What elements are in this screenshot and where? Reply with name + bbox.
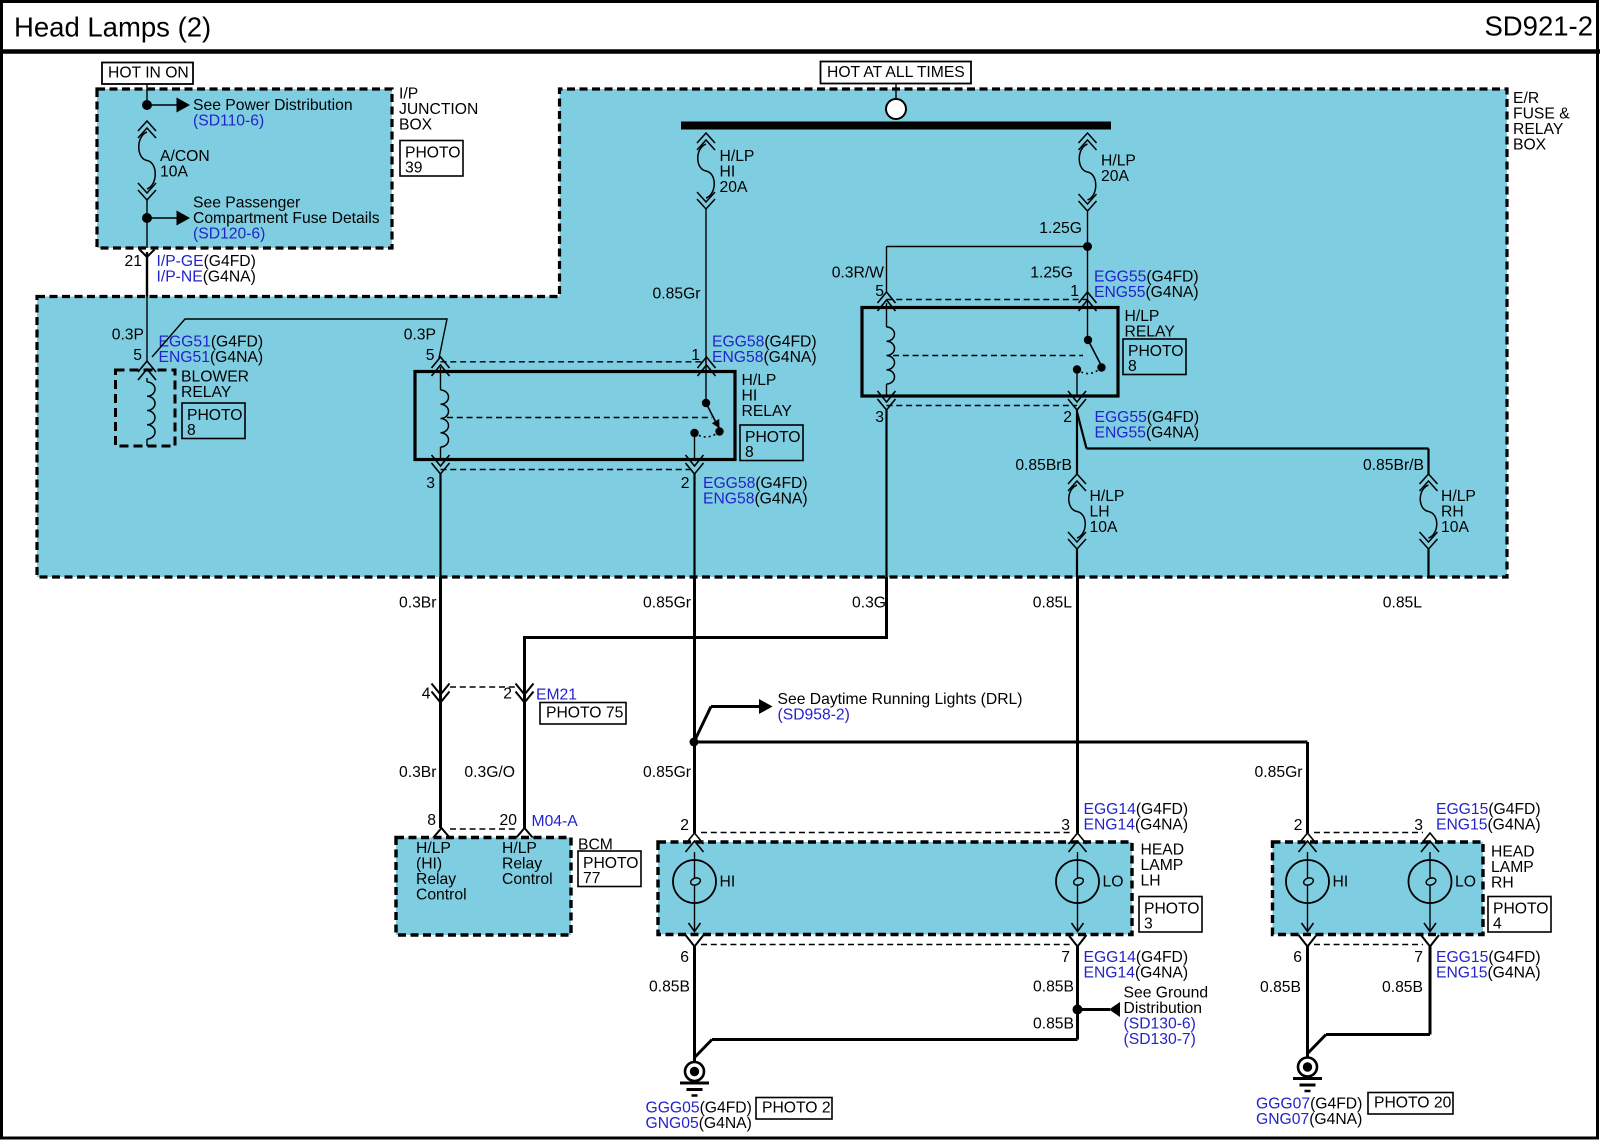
svg-text:LH: LH (1090, 504, 1110, 521)
svg-text:10A: 10A (160, 164, 188, 181)
svg-text:I/P-GE(G4FD): I/P-GE(G4FD) (157, 253, 256, 270)
svg-text:HEAD: HEAD (1491, 844, 1535, 861)
svg-text:ENG15(G4NA): ENG15(G4NA) (1436, 965, 1541, 982)
svg-text:7: 7 (1414, 949, 1423, 966)
svg-text:1.25G: 1.25G (1039, 220, 1082, 237)
svg-text:(SD958-2): (SD958-2) (778, 707, 850, 724)
svg-text:See Daytime Running Lights (DR: See Daytime Running Lights (DRL) (778, 691, 1023, 708)
svg-text:ENG58(G4NA): ENG58(G4NA) (712, 349, 817, 366)
svg-text:2: 2 (681, 475, 690, 492)
svg-text:0.85BrB: 0.85BrB (1015, 457, 1072, 474)
svg-text:EGG51(G4FD): EGG51(G4FD) (159, 334, 264, 351)
svg-text:0.85B: 0.85B (1382, 979, 1423, 996)
svg-text:EGG55(G4FD): EGG55(G4FD) (1094, 269, 1199, 286)
svg-text:1.25G: 1.25G (1030, 265, 1073, 282)
svg-text:0.3Br: 0.3Br (399, 764, 437, 781)
svg-text:ENG14(G4NA): ENG14(G4NA) (1084, 817, 1189, 834)
svg-text:LAMP: LAMP (1141, 857, 1184, 874)
svg-text:0.3G: 0.3G (852, 595, 886, 612)
svg-text:H/LP: H/LP (1125, 308, 1160, 325)
svg-text:8: 8 (1128, 358, 1137, 375)
svg-text:10A: 10A (1090, 519, 1118, 536)
svg-text:(SD110-6): (SD110-6) (193, 113, 264, 130)
svg-text:GGG05(G4FD): GGG05(G4FD) (646, 1100, 752, 1117)
svg-text:RH: RH (1441, 504, 1464, 521)
svg-text:39: 39 (405, 160, 422, 177)
svg-text:Control: Control (502, 871, 553, 888)
svg-text:GNG05(G4NA): GNG05(G4NA) (646, 1115, 752, 1132)
svg-text:M04-A: M04-A (532, 813, 579, 830)
svg-text:0.3R/W: 0.3R/W (832, 265, 884, 282)
svg-text:2: 2 (1294, 817, 1303, 834)
svg-text:EGG14(G4FD): EGG14(G4FD) (1084, 801, 1189, 818)
svg-text:8: 8 (187, 422, 196, 439)
svg-text:HOT IN ON: HOT IN ON (108, 65, 189, 82)
svg-text:21: 21 (125, 253, 142, 270)
svg-text:LH: LH (1141, 873, 1161, 890)
svg-text:H/LP: H/LP (1441, 488, 1476, 505)
svg-text:3: 3 (426, 475, 435, 492)
svg-text:EGG58(G4FD): EGG58(G4FD) (703, 475, 808, 492)
svg-text:RELAY: RELAY (1125, 324, 1176, 341)
svg-text:Relay: Relay (416, 871, 456, 888)
svg-text:BLOWER: BLOWER (181, 369, 249, 386)
svg-text:LAMP: LAMP (1491, 859, 1534, 876)
svg-text:A/CON: A/CON (160, 148, 210, 165)
svg-text:HI: HI (1333, 874, 1349, 891)
svg-text:Control: Control (416, 887, 467, 904)
svg-text:20A: 20A (720, 179, 748, 196)
svg-text:H/LP: H/LP (1101, 153, 1136, 170)
svg-text:0.85L: 0.85L (1383, 595, 1423, 612)
svg-text:3: 3 (1061, 817, 1070, 834)
svg-text:FUSE &: FUSE & (1513, 106, 1570, 123)
svg-text:I/P-NE(G4NA): I/P-NE(G4NA) (157, 269, 256, 286)
svg-text:(SD130-7): (SD130-7) (1124, 1031, 1196, 1048)
svg-text:HI: HI (742, 388, 758, 405)
svg-text:3: 3 (1414, 817, 1423, 834)
svg-text:PHOTO 20: PHOTO 20 (1374, 1095, 1452, 1112)
svg-text:20A: 20A (1101, 168, 1129, 185)
svg-text:LO: LO (1455, 874, 1476, 891)
svg-text:0.85Gr: 0.85Gr (643, 595, 691, 612)
svg-text:Head Lamps (2): Head Lamps (2) (14, 12, 211, 43)
svg-text:77: 77 (583, 870, 600, 887)
svg-text:6: 6 (680, 949, 689, 966)
svg-text:SD921-2: SD921-2 (1484, 11, 1593, 42)
svg-text:(SD130-6): (SD130-6) (1124, 1016, 1196, 1033)
svg-text:0.85Gr: 0.85Gr (643, 764, 691, 781)
svg-text:0.85Br/B: 0.85Br/B (1363, 457, 1424, 474)
svg-text:5: 5 (426, 347, 435, 364)
svg-text:GNG07(G4NA): GNG07(G4NA) (1256, 1111, 1362, 1128)
svg-text:RELAY: RELAY (742, 403, 793, 420)
svg-text:0.3P: 0.3P (112, 327, 144, 344)
svg-text:2: 2 (503, 686, 512, 703)
svg-text:0.85B: 0.85B (649, 979, 690, 996)
svg-text:2: 2 (680, 817, 689, 834)
svg-text:HEAD: HEAD (1141, 842, 1185, 859)
svg-text:2: 2 (1063, 409, 1072, 426)
svg-text:10A: 10A (1441, 519, 1469, 536)
svg-text:1: 1 (1070, 283, 1079, 300)
svg-text:(SD120-6): (SD120-6) (193, 226, 265, 243)
svg-text:EGG58(G4FD): EGG58(G4FD) (712, 334, 817, 351)
svg-text:(HI): (HI) (416, 856, 442, 873)
svg-text:Distribution: Distribution (1124, 1000, 1202, 1017)
svg-text:E/R: E/R (1513, 90, 1539, 107)
svg-text:Compartment Fuse Details: Compartment Fuse Details (193, 210, 380, 227)
svg-text:0.3G/O: 0.3G/O (464, 764, 515, 781)
svg-text:EGG55(G4FD): EGG55(G4FD) (1095, 409, 1200, 426)
svg-text:See Power Distribution: See Power Distribution (193, 97, 353, 114)
svg-text:EGG15(G4FD): EGG15(G4FD) (1436, 801, 1541, 818)
svg-text:0.3Br: 0.3Br (399, 595, 437, 612)
svg-text:GGG07(G4FD): GGG07(G4FD) (1256, 1096, 1362, 1113)
svg-text:H/LP: H/LP (742, 372, 777, 389)
svg-text:I/P: I/P (399, 86, 418, 103)
svg-text:1: 1 (691, 347, 700, 364)
svg-text:EGG14(G4FD): EGG14(G4FD) (1084, 949, 1189, 966)
svg-text:0.85L: 0.85L (1033, 595, 1073, 612)
svg-text:HI: HI (720, 164, 736, 181)
svg-text:BOX: BOX (399, 117, 433, 134)
svg-text:LO: LO (1103, 874, 1124, 891)
svg-text:4: 4 (1493, 916, 1502, 933)
svg-text:0.85Gr: 0.85Gr (653, 286, 701, 303)
svg-text:7: 7 (1061, 949, 1070, 966)
svg-text:ENG58(G4NA): ENG58(G4NA) (703, 491, 808, 508)
svg-text:0.85Gr: 0.85Gr (1255, 764, 1303, 781)
svg-text:0.85B: 0.85B (1260, 979, 1301, 996)
svg-text:20: 20 (500, 812, 518, 829)
svg-text:EM21: EM21 (536, 687, 577, 704)
svg-text:BOX: BOX (1513, 137, 1547, 154)
svg-text:ENG55(G4NA): ENG55(G4NA) (1094, 284, 1199, 301)
svg-text:HOT AT ALL TIMES: HOT AT ALL TIMES (827, 64, 965, 81)
svg-text:See Passenger: See Passenger (193, 195, 300, 212)
svg-text:ENG51(G4NA): ENG51(G4NA) (159, 349, 264, 366)
svg-text:ENG55(G4NA): ENG55(G4NA) (1095, 425, 1200, 442)
svg-text:RH: RH (1491, 875, 1514, 892)
svg-text:H/LP: H/LP (1090, 488, 1125, 505)
svg-text:HI: HI (720, 874, 736, 891)
svg-text:4: 4 (422, 686, 431, 703)
svg-text:3: 3 (875, 409, 884, 426)
svg-text:ENG15(G4NA): ENG15(G4NA) (1436, 817, 1541, 834)
svg-text:Relay: Relay (502, 856, 542, 873)
svg-text:ENG14(G4NA): ENG14(G4NA) (1084, 965, 1189, 982)
svg-text:PHOTO 2: PHOTO 2 (762, 1100, 831, 1117)
svg-text:0.3P: 0.3P (404, 327, 436, 344)
svg-text:H/LP: H/LP (416, 840, 451, 857)
svg-text:H/LP: H/LP (502, 840, 537, 857)
svg-text:0.85B: 0.85B (1033, 979, 1074, 996)
svg-text:RELAY: RELAY (1513, 121, 1564, 138)
svg-text:3: 3 (1144, 916, 1153, 933)
svg-text:RELAY: RELAY (181, 384, 232, 401)
svg-text:8: 8 (427, 812, 436, 829)
svg-text:8: 8 (745, 444, 754, 461)
svg-text:See Ground: See Ground (1124, 985, 1209, 1002)
svg-text:H/LP: H/LP (720, 148, 755, 165)
svg-text:6: 6 (1293, 949, 1302, 966)
svg-text:5: 5 (133, 347, 142, 364)
svg-text:PHOTO 75: PHOTO 75 (546, 705, 624, 722)
svg-text:0.85B: 0.85B (1033, 1016, 1074, 1033)
svg-text:JUNCTION: JUNCTION (399, 101, 478, 118)
svg-text:EGG15(G4FD): EGG15(G4FD) (1436, 949, 1541, 966)
